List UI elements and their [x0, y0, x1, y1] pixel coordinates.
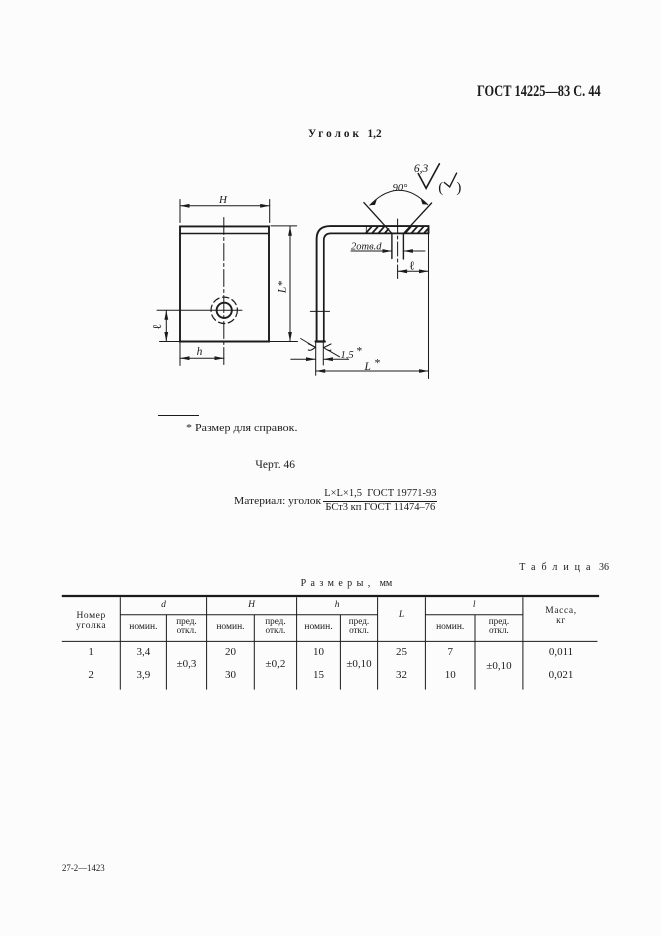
roughness check symbol — [418, 164, 439, 189]
local section boundary — [365, 227, 367, 233]
hole dashed circle (countersink) — [211, 297, 237, 323]
page header ГОСТ 14225—83 С. 44 — [477, 83, 601, 101]
l dimension (side view) — [398, 270, 429, 272]
90 deg arc — [370, 190, 428, 205]
footnote separator — [158, 415, 199, 416]
leg wall extension lines — [316, 342, 324, 376]
table group header divider — [120, 614, 523, 616]
hatch right band — [405, 227, 428, 233]
material line with fraction — [234, 495, 321, 507]
right edge extension line — [428, 233, 430, 378]
thickness dimension line with arrows — [291, 358, 349, 360]
Черт. 46 — [255, 459, 295, 471]
h extension line (left edge down) — [179, 342, 181, 366]
hole solid circle — [217, 303, 232, 318]
left view outline — [180, 226, 269, 341]
H extension lines — [180, 200, 270, 223]
table subheader bottom line — [62, 640, 598, 642]
L* extension lines (right of left view) — [160, 226, 298, 342]
L* dimension line (bottom) — [316, 370, 429, 372]
table vertical lines full — [120, 597, 523, 689]
profile inner line — [324, 233, 429, 341]
table text — [62, 611, 120, 632]
left view flange edge line — [180, 233, 269, 235]
thickness leader left with open arrow — [301, 339, 315, 348]
bottom left code 27-2—1423 — [62, 864, 105, 874]
leg horizontal centerline — [310, 310, 329, 312]
H dimension line — [180, 205, 270, 207]
Размеры, мм — [301, 578, 393, 589]
h dimension line — [180, 357, 224, 359]
data row 2 — [62, 669, 120, 681]
L* dimension line (vertical) — [289, 226, 291, 341]
countersink left line — [364, 203, 392, 234]
data row 1 — [62, 646, 120, 658]
hole hidden edges — [392, 233, 404, 259]
hole vertical centerline — [223, 218, 225, 367]
footnote — [186, 422, 298, 434]
profile outer line — [317, 226, 429, 341]
leg bottom tick — [316, 340, 325, 342]
hole centerline (side view) — [397, 219, 399, 279]
d dimension line with arrows — [351, 250, 425, 252]
table top thick border — [62, 595, 599, 597]
countersink right line — [404, 203, 432, 233]
title Уголок 1,2 — [308, 126, 382, 141]
thickness leader right with open arrow — [328, 350, 340, 357]
Таблица 36 — [519, 562, 609, 573]
merged tolerance cells — [166, 658, 206, 670]
hole horizontal centerline — [157, 309, 242, 311]
table vertical sub-dividers — [166, 615, 475, 690]
l dimension line (left) — [165, 310, 167, 341]
hatch left band — [366, 227, 389, 233]
